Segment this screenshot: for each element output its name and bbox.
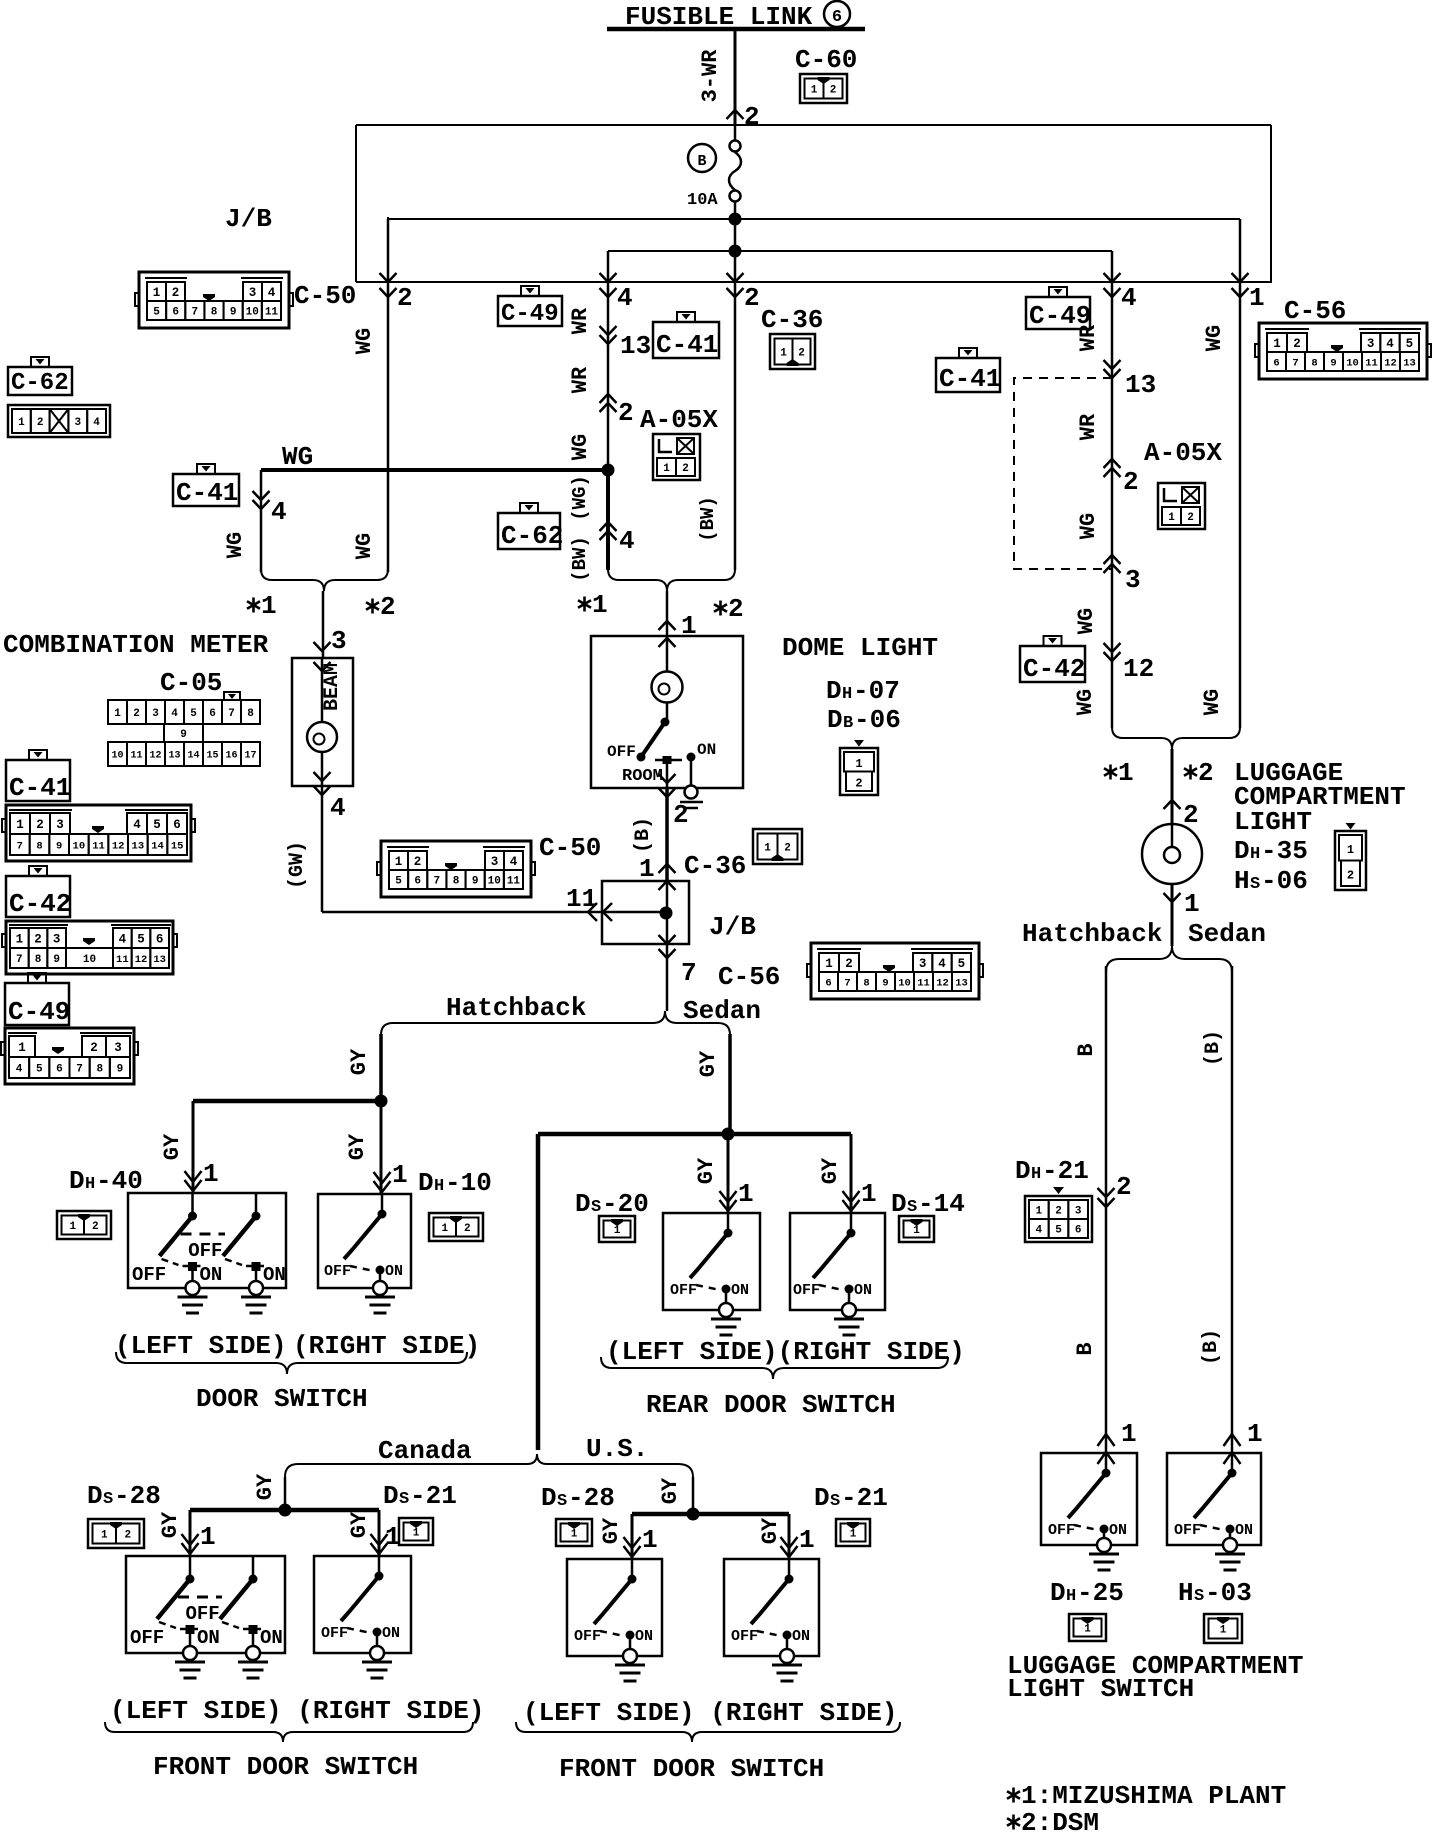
svg-text:1:MIZUSHIMA PLANT: 1:MIZUSHIMA PLANT: [1021, 1781, 1286, 1811]
svg-text:ON: ON: [260, 1627, 283, 1649]
svg-text:4: 4: [268, 286, 276, 300]
svg-text:1: 1: [441, 1223, 448, 1235]
svg-text:C-62: C-62: [11, 370, 69, 397]
svg-text:OFF: OFF: [324, 1263, 351, 1280]
svg-text:2: 2: [728, 594, 744, 624]
svg-text:7: 7: [434, 875, 441, 887]
svg-text:1: 1: [1247, 1419, 1263, 1449]
svg-text:2:DSM: 2:DSM: [1021, 1808, 1099, 1832]
svg-text:6: 6: [209, 708, 216, 720]
svg-text:6: 6: [173, 818, 181, 832]
svg-text:1: 1: [392, 1160, 408, 1190]
svg-text:B: B: [697, 153, 706, 170]
svg-text:5: 5: [153, 306, 160, 318]
svg-text:5: 5: [395, 875, 402, 887]
svg-text:(LEFT SIDE) (RIGHT SIDE): (LEFT SIDE) (RIGHT SIDE): [110, 1696, 484, 1726]
svg-text:2: 2: [673, 800, 689, 830]
svg-text:3: 3: [152, 708, 159, 720]
svg-text:1: 1: [1184, 889, 1200, 919]
svg-text:-25: -25: [1077, 1578, 1124, 1608]
svg-text:1: 1: [1036, 1205, 1043, 1217]
svg-text:A-05X: A-05X: [1144, 438, 1222, 468]
svg-text:C-62: C-62: [501, 521, 563, 551]
svg-text:8: 8: [35, 954, 42, 966]
svg-text:-10: -10: [445, 1168, 492, 1198]
svg-text:10: 10: [83, 954, 96, 966]
svg-text:8: 8: [211, 306, 218, 318]
svg-text:2: 2: [845, 957, 853, 971]
svg-text:5: 5: [190, 708, 197, 720]
svg-text:13: 13: [1125, 370, 1156, 400]
svg-text:5: 5: [1055, 1224, 1062, 1236]
svg-text:C-41: C-41: [939, 364, 1001, 394]
svg-text:9: 9: [180, 729, 187, 741]
svg-text:6: 6: [56, 1063, 63, 1075]
svg-text:OFF: OFF: [1174, 1522, 1201, 1539]
svg-text:6: 6: [172, 306, 179, 318]
svg-text:GY: GY: [345, 1133, 370, 1160]
svg-text:2: 2: [37, 417, 44, 429]
svg-text:1: 1: [16, 933, 24, 947]
svg-text:2: 2: [1293, 337, 1301, 351]
svg-text:11: 11: [1365, 357, 1378, 369]
svg-text:3: 3: [1367, 337, 1375, 351]
svg-text:1: 1: [855, 757, 862, 771]
svg-text:D: D: [891, 1189, 907, 1219]
svg-text:17: 17: [244, 751, 256, 762]
svg-text:1: 1: [639, 854, 655, 884]
svg-text:12: 12: [112, 840, 125, 852]
svg-text:S: S: [591, 1198, 601, 1217]
svg-text:1: 1: [1249, 283, 1265, 313]
svg-text:WG: WG: [282, 442, 313, 472]
svg-text:4: 4: [1386, 337, 1394, 351]
svg-text:OFF: OFF: [321, 1625, 348, 1642]
svg-text:6: 6: [414, 875, 421, 887]
svg-text:ON: ON: [697, 741, 716, 759]
svg-text:1: 1: [18, 417, 25, 429]
svg-text:12: 12: [1123, 654, 1154, 684]
svg-text:1: 1: [413, 1527, 420, 1539]
svg-text:16: 16: [225, 751, 237, 762]
svg-text:2: 2: [682, 463, 689, 475]
svg-text:(LEFT SIDE): (LEFT SIDE): [115, 1331, 287, 1361]
svg-text:2: 2: [1116, 1172, 1132, 1202]
svg-text:8: 8: [96, 1063, 103, 1075]
svg-text:(B): (B): [632, 817, 655, 853]
svg-text:9: 9: [1330, 357, 1336, 369]
svg-text:12: 12: [149, 751, 161, 762]
svg-text:-06: -06: [854, 705, 901, 735]
svg-text:(WG): (WG): [569, 475, 591, 521]
svg-text:GY: GY: [158, 1511, 183, 1538]
svg-text:3: 3: [249, 286, 257, 300]
svg-text:GY: GY: [347, 1511, 372, 1538]
svg-text:13: 13: [153, 954, 166, 966]
svg-text:2: 2: [124, 1529, 131, 1541]
svg-text:10: 10: [1346, 357, 1359, 369]
svg-text:11: 11: [116, 954, 129, 966]
svg-text:4: 4: [510, 855, 518, 869]
svg-text:FRONT DOOR SWITCH: FRONT DOOR SWITCH: [153, 1752, 418, 1782]
svg-text:2: 2: [618, 398, 634, 428]
svg-text:2: 2: [1123, 467, 1139, 497]
svg-text:5: 5: [1406, 337, 1414, 351]
svg-text:6: 6: [1273, 357, 1279, 369]
svg-text:1: 1: [571, 1528, 578, 1540]
svg-text:4: 4: [617, 283, 633, 313]
svg-text:D: D: [69, 1166, 85, 1196]
svg-text:Hatchback: Hatchback: [446, 993, 586, 1023]
svg-text:ON: ON: [263, 1264, 286, 1286]
svg-text:D: D: [383, 1481, 399, 1511]
svg-text:-21: -21: [1042, 1156, 1089, 1186]
svg-text:4: 4: [93, 417, 100, 429]
svg-text:2: 2: [1347, 868, 1354, 882]
svg-text:S: S: [1250, 875, 1260, 894]
svg-text:7: 7: [1292, 357, 1298, 369]
svg-text:3: 3: [491, 855, 499, 869]
svg-text:D: D: [87, 1481, 103, 1511]
svg-text:7: 7: [844, 977, 850, 989]
svg-text:2: 2: [133, 708, 140, 720]
svg-text:GY: GY: [694, 1157, 719, 1184]
svg-text:1: 1: [861, 1179, 877, 1209]
svg-text:C-41: C-41: [9, 773, 71, 803]
svg-text:4: 4: [271, 497, 287, 527]
svg-text:11: 11: [507, 875, 521, 887]
svg-text:1: 1: [153, 286, 161, 300]
svg-text:9: 9: [56, 840, 62, 852]
svg-text:2: 2: [464, 1223, 471, 1235]
svg-text:-21: -21: [841, 1483, 888, 1513]
svg-text:-14: -14: [918, 1189, 965, 1219]
svg-text:ON: ON: [731, 1282, 749, 1299]
svg-text:ON: ON: [792, 1628, 810, 1645]
svg-text:C-49: C-49: [1029, 301, 1091, 331]
svg-text:REAR DOOR SWITCH: REAR DOOR SWITCH: [646, 1390, 896, 1420]
svg-text:H: H: [85, 1175, 95, 1194]
svg-text:ON: ON: [1235, 1522, 1253, 1539]
svg-text:13: 13: [1403, 357, 1416, 369]
svg-text:S: S: [1194, 1587, 1204, 1606]
svg-text:ON: ON: [635, 1628, 653, 1645]
svg-text:B: B: [843, 714, 853, 733]
svg-text:2: 2: [92, 1221, 99, 1233]
svg-text:10: 10: [488, 875, 501, 887]
svg-text:10: 10: [246, 306, 259, 318]
svg-text:7: 7: [76, 1063, 83, 1075]
svg-text:FRONT DOOR SWITCH: FRONT DOOR SWITCH: [559, 1754, 824, 1784]
svg-text:1: 1: [261, 591, 277, 621]
svg-text:2: 2: [397, 283, 413, 313]
svg-text:7: 7: [17, 840, 23, 852]
svg-text:1: 1: [1084, 1623, 1091, 1635]
svg-text:OFF: OFF: [186, 1603, 220, 1625]
svg-text:-40: -40: [96, 1166, 143, 1196]
svg-text:9: 9: [882, 977, 888, 989]
svg-text:3: 3: [53, 933, 61, 947]
svg-text:4: 4: [938, 957, 946, 971]
svg-text:10: 10: [898, 977, 911, 989]
svg-text:1: 1: [592, 590, 608, 620]
svg-text:U.S.: U.S.: [586, 1434, 648, 1464]
svg-text:WG: WG: [352, 328, 377, 354]
svg-text:-07: -07: [853, 676, 900, 706]
svg-text:LIGHT SWITCH: LIGHT SWITCH: [1007, 1674, 1194, 1704]
svg-text:5: 5: [153, 818, 161, 832]
svg-text:ON: ON: [200, 1264, 223, 1286]
svg-text:7: 7: [228, 708, 235, 720]
svg-text:ON: ON: [385, 1263, 403, 1280]
svg-text:3: 3: [331, 626, 347, 656]
svg-text:Canada: Canada: [378, 1436, 472, 1466]
svg-text:ON: ON: [1109, 1522, 1127, 1539]
svg-text:1: 1: [1121, 1419, 1137, 1449]
svg-text:ROOM: ROOM: [622, 767, 663, 786]
svg-text:WG: WG: [1200, 689, 1225, 715]
svg-text:10: 10: [111, 751, 123, 762]
svg-text:2: 2: [414, 855, 422, 869]
svg-text:2: 2: [1183, 800, 1199, 830]
svg-text:-35: -35: [1261, 836, 1308, 866]
svg-text:1: 1: [200, 1522, 216, 1552]
svg-text:1: 1: [1347, 843, 1354, 857]
svg-text:OFF: OFF: [132, 1264, 166, 1286]
svg-text:5: 5: [137, 933, 145, 947]
svg-text:(RIGHT SIDE): (RIGHT SIDE): [293, 1331, 480, 1361]
svg-text:2: 2: [1198, 758, 1214, 788]
svg-text:-21: -21: [410, 1481, 457, 1511]
svg-text:1: 1: [799, 1525, 815, 1555]
svg-text:6: 6: [832, 8, 842, 27]
svg-text:D: D: [826, 676, 842, 706]
svg-text:8: 8: [863, 977, 869, 989]
svg-text:Hatchback: Hatchback: [1022, 919, 1162, 949]
svg-text:1: 1: [395, 855, 403, 869]
svg-text:C-36: C-36: [684, 851, 746, 881]
svg-text:1: 1: [1118, 758, 1134, 788]
svg-text:WG: WG: [1074, 608, 1099, 634]
svg-text:1: 1: [764, 842, 771, 854]
svg-text:WG: WG: [1076, 513, 1101, 539]
svg-text:-28: -28: [114, 1481, 161, 1511]
svg-text:C-60: C-60: [795, 45, 857, 75]
svg-text:1: 1: [1220, 1624, 1227, 1636]
svg-text:D: D: [1234, 836, 1250, 866]
svg-text:ON: ON: [197, 1627, 220, 1649]
svg-text:C-49: C-49: [501, 301, 559, 328]
svg-text:S: S: [830, 1492, 840, 1511]
svg-text:OFF: OFF: [607, 743, 636, 761]
svg-text:C-56: C-56: [718, 962, 780, 992]
svg-text:(B): (B): [1202, 1030, 1225, 1066]
svg-text:S: S: [399, 1490, 409, 1509]
svg-text:1: 1: [663, 463, 670, 475]
svg-text:C-42: C-42: [1023, 654, 1085, 684]
svg-text:4: 4: [1036, 1224, 1043, 1236]
svg-text:9: 9: [53, 954, 60, 966]
svg-text:WG: WG: [1073, 689, 1098, 715]
svg-text:DOOR SWITCH: DOOR SWITCH: [196, 1384, 368, 1414]
svg-text:D: D: [827, 705, 843, 735]
svg-text:11: 11: [566, 884, 597, 914]
svg-text:C-05: C-05: [160, 668, 222, 698]
svg-text:1: 1: [850, 1528, 857, 1540]
svg-text:11: 11: [92, 840, 105, 852]
svg-text:H: H: [1178, 1578, 1194, 1608]
svg-text:-06: -06: [1261, 866, 1308, 896]
svg-text:GY: GY: [696, 1050, 721, 1077]
svg-text:13: 13: [620, 331, 651, 361]
svg-text:OFF: OFF: [793, 1282, 820, 1299]
svg-text:A-05X: A-05X: [640, 405, 718, 435]
svg-text:13: 13: [168, 751, 180, 762]
svg-text:J/B: J/B: [225, 204, 272, 234]
svg-text:C-41: C-41: [176, 478, 238, 508]
svg-text:13: 13: [132, 840, 145, 852]
svg-text:(B): (B): [1200, 1329, 1223, 1365]
svg-text:1: 1: [1168, 512, 1175, 524]
svg-text:1: 1: [69, 1221, 76, 1233]
svg-text:WG: WG: [568, 434, 593, 460]
svg-text:6: 6: [1075, 1224, 1082, 1236]
svg-text:3: 3: [919, 957, 927, 971]
svg-text:C-36: C-36: [761, 305, 823, 335]
svg-text:WG: WG: [223, 532, 248, 558]
svg-text:GY: GY: [253, 1473, 278, 1500]
svg-text:5: 5: [958, 957, 966, 971]
svg-text:(LEFT SIDE) (RIGHT SIDE): (LEFT SIDE) (RIGHT SIDE): [523, 1698, 897, 1728]
svg-text:2: 2: [744, 102, 760, 132]
svg-text:13: 13: [955, 977, 968, 989]
svg-text:S: S: [557, 1492, 567, 1511]
svg-text:4: 4: [1121, 283, 1137, 313]
svg-text:7: 7: [192, 306, 199, 318]
svg-text:WR: WR: [568, 366, 593, 393]
svg-text:OFF: OFF: [574, 1628, 601, 1645]
svg-text:H: H: [1066, 1587, 1076, 1606]
svg-text:1: 1: [18, 1041, 26, 1055]
svg-text:1: 1: [1273, 337, 1281, 351]
svg-text:14: 14: [151, 840, 164, 852]
svg-text:C-49: C-49: [8, 997, 70, 1027]
svg-text:2: 2: [784, 842, 791, 854]
svg-text:D: D: [541, 1483, 557, 1513]
svg-text:OFF: OFF: [130, 1627, 164, 1649]
svg-text:6: 6: [156, 933, 164, 947]
svg-text:1: 1: [642, 1525, 658, 1555]
svg-text:D: D: [418, 1168, 434, 1198]
svg-text:-03: -03: [1205, 1578, 1252, 1608]
svg-text:1: 1: [913, 1225, 920, 1237]
svg-text:1: 1: [203, 1159, 219, 1189]
svg-text:C-41: C-41: [656, 330, 718, 360]
svg-text:2: 2: [36, 818, 44, 832]
svg-text:11: 11: [130, 751, 142, 762]
svg-text:H: H: [842, 685, 852, 704]
svg-text:4: 4: [619, 526, 635, 556]
svg-text:12: 12: [936, 977, 949, 989]
svg-text:10A: 10A: [687, 191, 718, 210]
svg-text:GY: GY: [658, 1477, 683, 1504]
svg-text:14: 14: [187, 751, 199, 762]
svg-text:4: 4: [133, 818, 141, 832]
svg-text:J/B: J/B: [709, 912, 756, 942]
svg-text:Sedan: Sedan: [683, 996, 761, 1026]
svg-text:15: 15: [206, 751, 218, 762]
svg-text:8: 8: [36, 840, 42, 852]
svg-text:4: 4: [330, 793, 346, 823]
svg-text:8: 8: [247, 708, 254, 720]
svg-text:B: B: [1074, 1043, 1099, 1056]
svg-text:H: H: [1234, 866, 1250, 896]
svg-text:3: 3: [56, 818, 64, 832]
svg-text:-20: -20: [602, 1189, 649, 1219]
svg-text:4: 4: [16, 1063, 23, 1075]
svg-text:6: 6: [825, 977, 831, 989]
svg-text:GY: GY: [599, 1517, 624, 1544]
svg-text:(GW): (GW): [286, 841, 309, 889]
svg-text:WG: WG: [352, 533, 377, 559]
svg-text:COMBINATION METER: COMBINATION METER: [3, 630, 269, 660]
svg-text:S: S: [103, 1490, 113, 1509]
svg-text:9: 9: [472, 875, 479, 887]
svg-text:B: B: [1073, 1342, 1098, 1355]
svg-text:7: 7: [681, 958, 697, 988]
svg-text:2: 2: [744, 283, 760, 313]
svg-text:1: 1: [614, 1225, 621, 1237]
svg-text:3: 3: [74, 417, 81, 429]
svg-text:DOME LIGHT: DOME LIGHT: [782, 633, 938, 663]
svg-text:WR: WR: [568, 307, 593, 334]
svg-text:-28: -28: [568, 1483, 615, 1513]
svg-text:S: S: [907, 1198, 917, 1217]
svg-text:D: D: [575, 1189, 591, 1219]
svg-text:ON: ON: [854, 1282, 872, 1299]
svg-text:11: 11: [265, 306, 279, 318]
svg-text:C-42: C-42: [9, 889, 71, 919]
svg-text:2: 2: [830, 84, 837, 96]
svg-text:7: 7: [16, 954, 23, 966]
svg-text:GY: GY: [347, 1048, 372, 1075]
svg-text:4: 4: [171, 708, 178, 720]
svg-text:WR: WR: [1076, 413, 1101, 440]
svg-text:2: 2: [1187, 512, 1194, 524]
svg-text:1: 1: [780, 347, 787, 359]
svg-text:3-WR: 3-WR: [698, 49, 723, 103]
svg-text:9: 9: [230, 306, 237, 318]
svg-text:D: D: [1015, 1156, 1031, 1186]
svg-text:OFF: OFF: [670, 1282, 697, 1299]
svg-text:H: H: [434, 1177, 444, 1196]
svg-text:3: 3: [1075, 1205, 1082, 1217]
svg-text:2: 2: [380, 592, 396, 622]
svg-text:D: D: [814, 1483, 830, 1513]
svg-text:ON: ON: [382, 1625, 400, 1642]
svg-text:12: 12: [1384, 357, 1397, 369]
svg-text:11: 11: [917, 977, 930, 989]
svg-text:OFF: OFF: [731, 1628, 758, 1645]
svg-text:15: 15: [171, 840, 184, 852]
svg-text:2: 2: [1055, 1205, 1062, 1217]
svg-text:LIGHT: LIGHT: [1234, 807, 1312, 837]
svg-text:1: 1: [114, 708, 121, 720]
svg-text:12: 12: [135, 954, 148, 966]
svg-text:2: 2: [798, 347, 805, 359]
svg-text:5: 5: [36, 1063, 43, 1075]
svg-text:1: 1: [101, 1529, 108, 1541]
